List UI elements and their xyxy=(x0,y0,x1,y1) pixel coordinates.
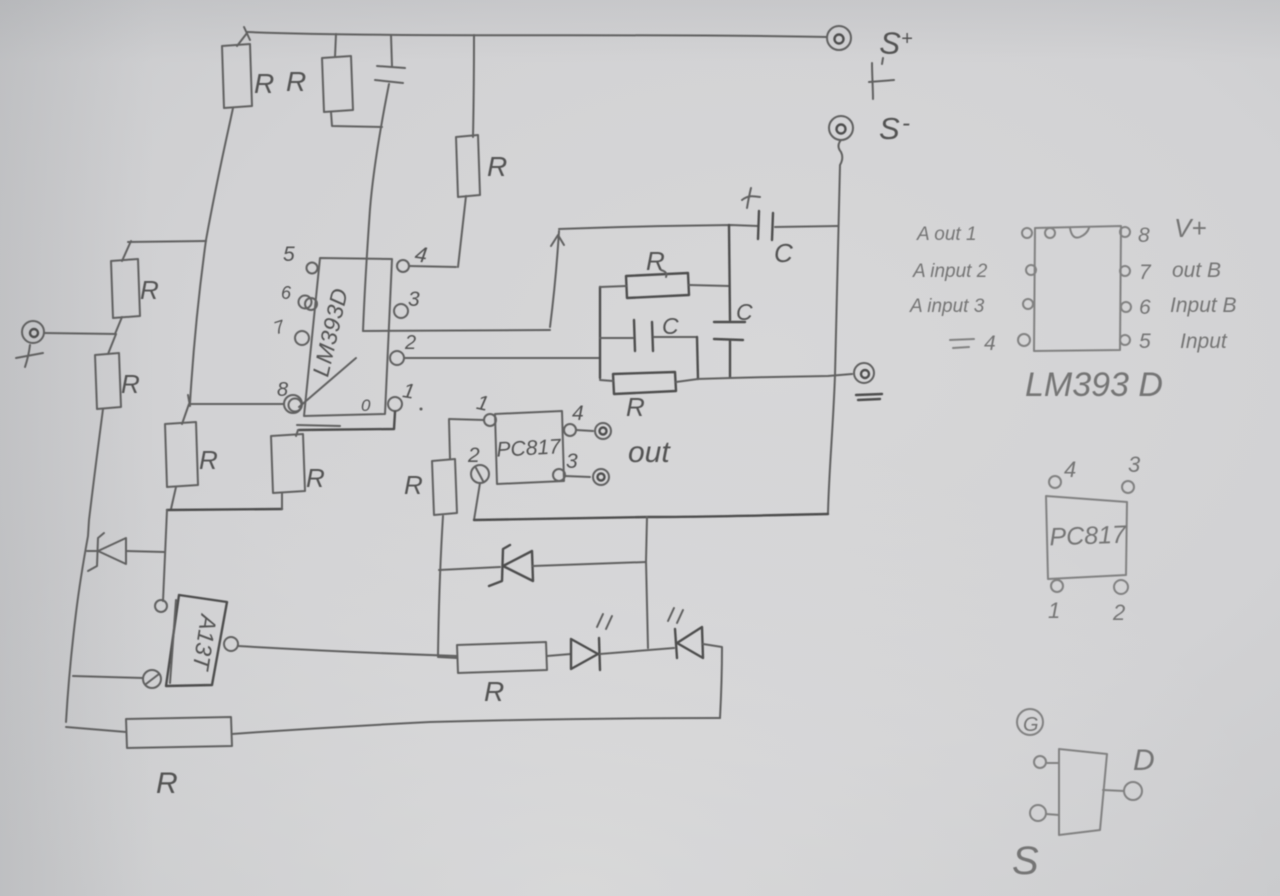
svg-text:R: R xyxy=(286,66,306,97)
label C of C2 xyxy=(662,313,679,339)
zener diode left xyxy=(87,533,164,571)
svg-text:0: 0 xyxy=(361,396,371,415)
capacitor C1 xyxy=(758,211,838,240)
label LM393D rotated xyxy=(307,285,353,378)
wire pin4 to R3 xyxy=(409,266,456,267)
wire x646 vertical xyxy=(646,517,648,648)
wire R to diode D1 xyxy=(547,654,571,656)
resistor R mid-right xyxy=(271,434,305,493)
label R below network xyxy=(626,392,645,422)
wire U2 pin1 left xyxy=(449,419,484,420)
resistor R left-mid xyxy=(95,334,121,409)
label D2 tick marks xyxy=(668,608,683,623)
U3 pin 3 xyxy=(1023,299,1033,309)
resistor R mid-left xyxy=(165,422,198,487)
label LM393 D xyxy=(1025,366,1163,404)
wire capacitor bottom lead long vertical xyxy=(363,84,389,331)
svg-text:4: 4 xyxy=(572,402,584,425)
label R of R1 xyxy=(254,68,274,99)
label R bottom-left xyxy=(156,767,178,800)
label 0 inside U1 xyxy=(361,396,371,415)
label 7 out B xyxy=(1139,259,1221,284)
svg-text:PC817: PC817 xyxy=(496,435,563,461)
U1 pin 6 xyxy=(281,283,317,310)
U3 notch U mark xyxy=(1070,228,1089,238)
U3 pin 6 xyxy=(1121,302,1131,312)
wire R2 top lead xyxy=(335,34,336,57)
wire lead to + node xyxy=(115,317,122,334)
label R mid-left xyxy=(199,445,218,475)
wire row y509 xyxy=(167,493,282,510)
svg-text:2: 2 xyxy=(404,332,416,354)
resistor R1 xyxy=(222,44,252,108)
mosfet Q2 body xyxy=(1059,749,1107,835)
svg-text:LM393 D: LM393 D xyxy=(1025,366,1163,404)
svg-text:A input 3: A input 3 xyxy=(909,296,985,317)
svg-text:S: S xyxy=(879,25,902,61)
transistor Q1 A13T body xyxy=(166,595,227,686)
U2 pin 2 xyxy=(467,444,489,483)
svg-text:D: D xyxy=(1133,744,1155,777)
svg-text:R: R xyxy=(156,767,178,800)
resistor R left-top xyxy=(111,259,140,318)
svg-text:V+: V+ xyxy=(1174,213,1207,243)
terminal out lower xyxy=(593,469,609,485)
wire pin3 node horizontal xyxy=(363,330,550,331)
label R below U2 xyxy=(404,470,423,500)
U3 notch circle xyxy=(1045,228,1055,238)
label out xyxy=(628,436,671,469)
svg-text:R: R xyxy=(484,676,504,707)
svg-text:Input B: Input B xyxy=(1170,294,1237,317)
Q1 right pin xyxy=(224,637,238,651)
resistor R below U2 xyxy=(432,459,457,515)
wire bottom rail long xyxy=(232,718,720,734)
node network left vertical xyxy=(599,287,601,378)
wire R1 bottom long slanted run xyxy=(190,108,233,403)
IC pinout U4 PC817 body xyxy=(1046,496,1127,579)
Q1 top pin xyxy=(155,600,167,612)
IC pinout U3 LM393D body xyxy=(1034,226,1121,351)
U1 pin 3 xyxy=(394,288,420,318)
svg-text:S: S xyxy=(879,111,900,146)
svg-text:3: 3 xyxy=(566,450,578,473)
svg-text:R: R xyxy=(487,151,507,182)
polarity cross symbol xyxy=(869,58,894,99)
svg-text:G: G xyxy=(1023,714,1039,736)
label 5 Input xyxy=(1139,330,1228,353)
svg-text:1: 1 xyxy=(1048,598,1060,623)
resistor R2 xyxy=(322,56,353,112)
svg-text:S: S xyxy=(1012,839,1039,883)
wire R mid-left top lead xyxy=(182,404,189,424)
svg-text:Input: Input xyxy=(1180,330,1228,353)
capacitor C2 xyxy=(600,320,698,379)
svg-text:C: C xyxy=(662,313,679,339)
svg-text:4: 4 xyxy=(984,332,996,355)
op-amp U1 LM393D body xyxy=(299,258,392,416)
label R mid-right xyxy=(306,463,325,493)
svg-text:out B: out B xyxy=(1172,259,1221,282)
resistor R bottom-mid xyxy=(438,642,547,673)
wire U2 pin2 down xyxy=(474,483,480,520)
U1 pin 8 xyxy=(277,379,302,413)
label R of R2 xyxy=(286,66,306,97)
svg-text:R: R xyxy=(646,246,665,276)
wire R mid-left bottom lead xyxy=(171,487,176,509)
U3 pin 2 xyxy=(1026,265,1036,275)
resistor R bottom-left xyxy=(126,717,232,748)
U4 pin 1 xyxy=(1048,580,1063,623)
Q1 bottom pin xyxy=(143,670,161,688)
label S xyxy=(1012,839,1039,883)
resistor R network top xyxy=(600,273,729,298)
U3 pin 5 xyxy=(1120,335,1130,345)
zener diode right xyxy=(439,545,646,586)
U3 pin 8 xyxy=(1120,227,1130,237)
terminal + input xyxy=(22,321,44,343)
U3 pin 7 xyxy=(1120,266,1130,276)
capacitor C top-left xyxy=(375,35,405,83)
optocoupler U2 PC817 body xyxy=(495,411,564,484)
wire upper rail to C1 xyxy=(559,225,758,229)
svg-text:6: 6 xyxy=(281,283,292,303)
wire Q1 right pin to R xyxy=(238,646,457,656)
wire D1 to D2 xyxy=(600,648,674,654)
svg-text:4: 4 xyxy=(1064,457,1076,482)
wire R3 bottom lead to pin4 xyxy=(458,196,466,267)
svg-text:3: 3 xyxy=(408,288,420,311)
label R bottom-mid xyxy=(484,676,504,707)
svg-text:A out 1: A out 1 xyxy=(916,224,977,245)
label A out 1 xyxy=(916,224,977,245)
diode D1 xyxy=(571,638,600,670)
svg-text:C: C xyxy=(736,299,753,325)
wire R below U2 down xyxy=(438,516,443,656)
svg-text:C: C xyxy=(774,238,793,268)
svg-text:R: R xyxy=(306,463,325,493)
diode D2 xyxy=(675,627,703,658)
label A input 3 xyxy=(909,296,985,317)
wire pin8 to left node xyxy=(188,395,284,406)
U1 pin 2 xyxy=(390,332,416,365)
label S- xyxy=(879,110,910,146)
Q2 pin source xyxy=(1030,805,1059,821)
resistor R3 xyxy=(456,135,480,197)
wire network right vertical upper xyxy=(729,225,730,320)
wire box bottom from S- corner xyxy=(474,514,828,520)
label C of C3 xyxy=(736,299,753,325)
Q2 pin drain xyxy=(1103,782,1142,800)
wire R2 bottom lead xyxy=(331,112,382,127)
U3 pin 4 xyxy=(1018,334,1030,346)
wire + terminal to divider xyxy=(44,333,116,334)
U2 pin 4 xyxy=(564,402,584,436)
label 8 V+ xyxy=(1138,213,1207,247)
wire R3 top lead xyxy=(473,35,474,137)
wire network to ground terminal xyxy=(697,374,852,379)
terminal S- xyxy=(829,116,853,140)
wire R1 top lead xyxy=(237,33,247,46)
wire vertical with arrow to top rail xyxy=(550,231,564,327)
wire x165 vertical to A13T xyxy=(163,510,167,601)
U1 pin 1 xyxy=(388,379,423,411)
svg-text:2: 2 xyxy=(467,444,480,467)
terminal S+ xyxy=(827,26,851,50)
mosfet Q2 gate label G xyxy=(1017,709,1043,736)
svg-text:3: 3 xyxy=(1128,452,1141,477)
svg-text:5: 5 xyxy=(1139,330,1151,353)
svg-text:8: 8 xyxy=(277,379,288,401)
svg-text:R: R xyxy=(404,470,423,500)
wire left vertical down to bottom xyxy=(66,409,103,722)
svg-text:R: R xyxy=(121,369,140,399)
label gnd 4 xyxy=(950,332,996,355)
label S+ xyxy=(879,25,913,61)
U1 pin 4 xyxy=(397,241,429,272)
svg-text:PC817: PC817 xyxy=(1049,521,1127,552)
svg-text:out: out xyxy=(628,436,671,469)
label PC817 inside U2 xyxy=(496,435,563,461)
label 6 Input B xyxy=(1139,294,1237,319)
terminal ground out xyxy=(854,363,874,383)
wire top supply rail xyxy=(244,27,827,40)
U1 pin 7 xyxy=(271,316,309,345)
wire from S- down right side xyxy=(828,140,842,513)
svg-text:+: + xyxy=(901,28,913,50)
svg-text:8: 8 xyxy=(1138,224,1150,247)
svg-text:R: R xyxy=(626,392,645,422)
svg-text:-: - xyxy=(902,110,910,137)
svg-text:6: 6 xyxy=(1139,296,1151,319)
label + above C1 xyxy=(742,188,760,208)
resistor R network bottom xyxy=(600,372,698,394)
Q2 pin gate xyxy=(1034,756,1059,768)
label D xyxy=(1133,744,1155,777)
wire pin2 to RC network xyxy=(404,357,600,359)
svg-text:5: 5 xyxy=(283,243,295,266)
wire R top lead to pin1 wire xyxy=(449,420,450,459)
ground bars xyxy=(856,394,882,400)
svg-text:R: R xyxy=(254,68,274,99)
svg-text:7: 7 xyxy=(1139,261,1152,284)
label D1 tick marks xyxy=(597,614,612,629)
U1 pin 5 xyxy=(283,243,318,274)
U3 pin 1 xyxy=(1022,228,1032,238)
U4 pin 4 xyxy=(1049,457,1076,488)
wire Q1 bottom pin to left rail xyxy=(73,676,143,678)
wire U2 pin4 to out xyxy=(576,430,593,431)
wire branch to left divider xyxy=(122,241,206,261)
label + plus sign xyxy=(16,345,43,367)
svg-text:A input 2: A input 2 xyxy=(912,261,988,282)
label A13T rotated xyxy=(187,611,222,673)
wire D2 right down to bottom rail xyxy=(703,644,722,718)
U4 pin 2 xyxy=(1112,580,1128,625)
wire bottom rail left xyxy=(66,727,126,732)
U4 pin 3 xyxy=(1122,452,1141,493)
label R left-top xyxy=(140,275,159,305)
label C of C1 xyxy=(774,238,793,268)
label PC817 inside U4 xyxy=(1049,521,1127,552)
U2 pin 1 xyxy=(474,391,496,426)
label R of R3 xyxy=(487,151,507,182)
U2 pin 3 xyxy=(553,450,578,481)
capacitor C3 horizontal plates xyxy=(714,322,745,377)
wire U2 pin3 to out xyxy=(565,476,590,477)
svg-text:2: 2 xyxy=(1112,600,1125,625)
label R above network xyxy=(646,246,666,277)
wire pin1 row under U1 xyxy=(296,412,395,436)
svg-text:R: R xyxy=(199,445,218,475)
svg-text:R: R xyxy=(140,275,159,305)
label R left-mid xyxy=(121,369,140,399)
terminal out upper xyxy=(595,423,611,439)
label A input 2 xyxy=(912,261,988,282)
